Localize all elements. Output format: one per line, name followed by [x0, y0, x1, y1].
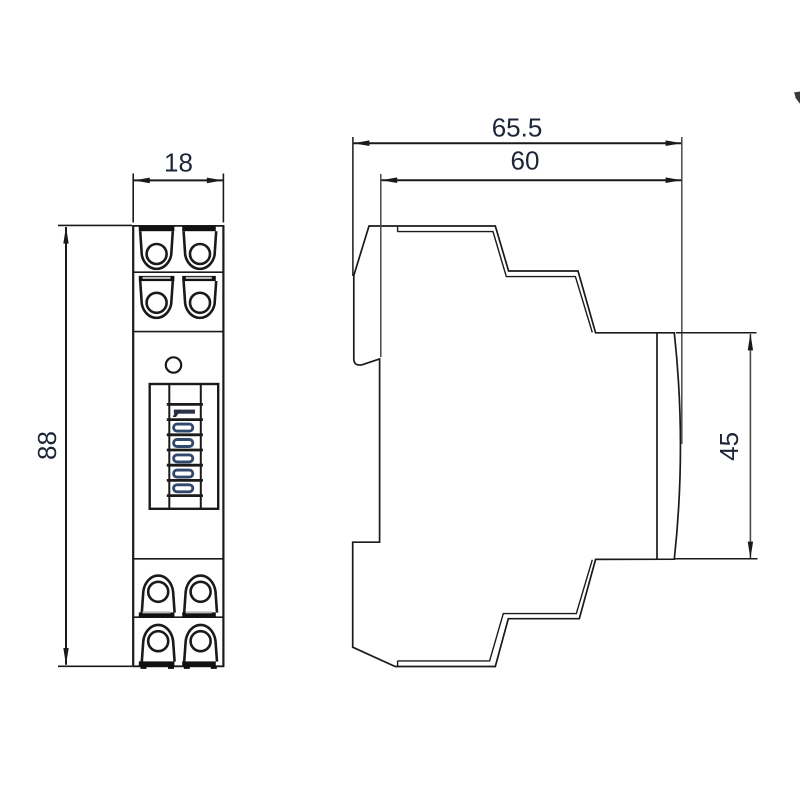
screw circle row4 right — [191, 631, 211, 651]
front body top edge — [132, 225, 224, 227]
screw circle row4 left — [148, 631, 168, 651]
terminal bar row2 gray slot left — [143, 277, 171, 279]
terminal U row1 left — [140, 231, 173, 269]
counter cell line 4 — [167, 449, 203, 452]
svg-text:18: 18 — [164, 148, 193, 178]
LED indicator — [166, 357, 181, 372]
side bottom lip left step connector — [397, 661, 399, 667]
dim 45 top extension line — [676, 332, 757, 334]
dim 88 top arrow — [63, 227, 68, 244]
screw circle row2 left — [147, 293, 167, 313]
screw circle row3 right — [191, 582, 211, 602]
terminal arch row4 right — [184, 625, 217, 662]
front body left edge — [132, 226, 134, 667]
counter digit 0 cell5 — [174, 470, 193, 477]
side front inner vertical — [656, 333, 658, 559]
dim 18 right extension line — [222, 174, 224, 223]
counter cell line 6 — [167, 479, 203, 482]
dim 18 left arrow — [134, 178, 150, 184]
counter digit 0 cell6 — [174, 485, 193, 492]
terminal U row1 right — [184, 231, 217, 269]
dim 18 left extension line — [132, 174, 134, 223]
dim 45 bottom arrow — [748, 542, 753, 559]
dim 65.5 right extension line — [681, 137, 683, 444]
dim 45 line — [749, 334, 751, 558]
terminal row1 divider line — [132, 271, 224, 273]
terminal bar row1 right — [182, 226, 216, 231]
terminal U row2 right — [184, 281, 217, 318]
screw circle row3 left — [148, 582, 168, 602]
terminal bar row3 gray slot left — [143, 611, 171, 613]
counter window outer frame — [150, 384, 219, 509]
terminal bar row3 left — [139, 612, 175, 617]
terminal U row2 left — [140, 281, 173, 318]
terminal foot row4 c — [184, 666, 190, 669]
dim 45 top arrow — [748, 333, 753, 350]
counter cell line 5 — [167, 464, 203, 467]
dim 45 bottom extension line — [675, 558, 758, 560]
counter inner right column line — [200, 384, 202, 509]
screw circle row1 left — [147, 244, 167, 264]
terminal foot row4 a — [141, 666, 147, 669]
row3 bar bottom line — [132, 616, 224, 618]
front body right edge — [222, 226, 224, 667]
svg-text:45: 45 — [714, 432, 744, 461]
dim 65.5 left arrow — [353, 140, 369, 146]
terminal bar row4 right — [182, 661, 216, 666]
counter cell line 1 — [167, 403, 203, 406]
dim 60 line — [382, 179, 682, 181]
bottom terminal section top line — [132, 558, 224, 560]
dim 60 left arrow — [381, 177, 397, 183]
dim 88 top extension line — [58, 224, 132, 226]
terminal foot row4 d — [211, 666, 217, 669]
front body bottom edge — [132, 665, 224, 667]
dim 65.5 line — [354, 142, 682, 144]
dim 65.5 right arrow — [666, 140, 682, 146]
clipped mark at right edge — [795, 92, 800, 104]
side top lip left step connector — [397, 227, 399, 232]
side bottom lip inner line — [398, 560, 593, 661]
svg-text:60: 60 — [511, 146, 540, 176]
terminal bar row1 left — [139, 226, 175, 231]
dim 88 bottom arrow — [63, 648, 68, 665]
counter inner left column line — [168, 384, 170, 509]
dim 60 right arrow — [666, 177, 682, 183]
dim 65.5 left extension line — [352, 137, 354, 276]
counter digit 1 (top cell, rotated bar with flag) — [174, 410, 195, 414]
terminal foot row4 b — [168, 666, 174, 669]
counter cell line 7 — [167, 494, 203, 497]
screw circle row2 right — [190, 293, 210, 313]
terminal bar row3 right — [182, 612, 216, 617]
terminal arch row4 left — [142, 625, 175, 662]
dim 88 line — [65, 227, 67, 665]
terminal bar row4 left — [139, 661, 175, 666]
terminal bar row3 gray slot right — [186, 611, 212, 613]
dim 18 right arrow — [207, 178, 223, 184]
screw circle row1 right — [190, 244, 210, 264]
terminal bar row2 left — [139, 276, 175, 281]
terminal bar row2 right — [182, 276, 216, 281]
svg-text:88: 88 — [32, 431, 62, 460]
counter digit 0 cell4 — [174, 455, 193, 462]
terminal arch row3 left — [142, 576, 175, 613]
counter cell line 2 — [167, 418, 203, 421]
terminal bar row2 gray slot right — [186, 277, 212, 279]
terminal section bottom line — [132, 331, 224, 333]
dim 88 bottom extension line — [58, 665, 132, 667]
terminal arch row3 right — [184, 576, 217, 613]
side outline outer — [353, 226, 681, 667]
svg-text:65.5: 65.5 — [492, 113, 543, 143]
dim 60 left extension line — [380, 174, 382, 357]
side top lip inner line — [398, 232, 593, 333]
counter digit 0 cell3 — [174, 440, 193, 447]
dim 18 line — [134, 179, 223, 181]
counter digit 0 cell2 — [174, 424, 193, 431]
counter cell line 3 — [167, 433, 203, 436]
